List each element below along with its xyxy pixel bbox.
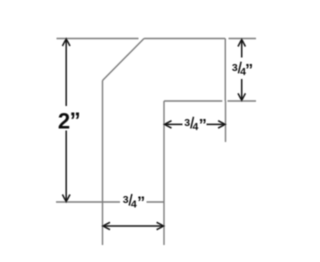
wire top edge bbox=[144, 38, 225, 40]
dimension 2 inch vertical line lower segment bbox=[65, 131, 67, 202]
wire vertical extension below step bbox=[225, 101, 227, 142]
arrowhead right at middle 3/4 bbox=[218, 121, 225, 128]
svg-text:4: 4 bbox=[193, 121, 199, 133]
wire mid-right extension line bbox=[228, 100, 257, 102]
wire bottom edge right part bbox=[147, 201, 165, 203]
dimension lines (black) bbox=[62, 39, 245, 230]
wire top-left extension line bbox=[57, 38, 139, 40]
svg-text:”: ” bbox=[245, 62, 253, 79]
dimension middle 3/4 inch left segment bbox=[165, 123, 183, 125]
wire bottom edge left part with extension bbox=[56, 201, 120, 203]
wire left edge plus lower extension bbox=[102, 81, 104, 246]
svg-text:”: ” bbox=[137, 194, 145, 211]
arrowhead left at middle 3/4 bbox=[164, 121, 171, 128]
arrowhead down at right 3/4 bottom bbox=[238, 93, 245, 100]
svg-text:3: 3 bbox=[184, 117, 190, 129]
dimension 2 inch vertical line upper segment bbox=[65, 39, 67, 106]
arrowhead right at bottom 3/4 bbox=[157, 222, 164, 229]
arrowhead up at 2in top bbox=[62, 39, 70, 46]
arrowhead up at right 3/4 top bbox=[238, 39, 245, 46]
svg-text:3: 3 bbox=[123, 194, 129, 206]
svg-text:”: ” bbox=[70, 108, 81, 133]
wire chamfer diagonal bbox=[103, 39, 145, 81]
dimension middle 3/4 inch right segment bbox=[207, 123, 226, 125]
svg-text:4: 4 bbox=[131, 198, 137, 210]
label 2 inch bbox=[58, 108, 81, 134]
label middle 3/4 inch bbox=[184, 117, 206, 134]
dimension right 3/4 inch lower segment bbox=[241, 79, 243, 100]
dimension bottom 3/4 inch line bbox=[103, 225, 164, 227]
svg-text:”: ” bbox=[199, 117, 207, 134]
svg-text:2: 2 bbox=[58, 108, 70, 133]
arrowhead left at bottom 3/4 bbox=[103, 222, 110, 229]
wire inner vertical edge plus lower extension bbox=[163, 101, 165, 245]
wire right edge bbox=[224, 39, 226, 102]
label bottom 3/4 inch bbox=[123, 194, 145, 211]
label right 3/4 inch bbox=[232, 62, 253, 79]
svg-text:3: 3 bbox=[232, 62, 238, 74]
arrowhead down at 2in bottom bbox=[62, 195, 70, 202]
wire step bottom edge bbox=[164, 100, 222, 102]
wire top-right extension line bbox=[229, 38, 257, 40]
profile outline (L-shaped molding cross-section) bbox=[56, 39, 256, 246]
dimension right 3/4 inch upper segment bbox=[241, 40, 243, 58]
